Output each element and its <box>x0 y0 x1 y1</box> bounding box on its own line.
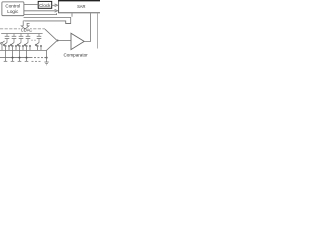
capacitor C1 <box>5 34 10 43</box>
capacitor C3 <box>19 34 24 43</box>
switch S3 <box>17 43 24 58</box>
wire control->SAR with arrow <box>24 9 58 12</box>
main ground symbol <box>44 50 48 65</box>
wire SAR underside stub <box>71 13 73 17</box>
svg-text:Comparator: Comparator <box>63 53 88 58</box>
svg-text:CDAC: CDAC <box>21 28 33 33</box>
switch S2 <box>10 43 17 58</box>
svg-text:SAR: SAR <box>77 4 85 9</box>
capacitor C4 <box>26 34 31 43</box>
diagonal rail -> comparator node (upper) <box>45 29 57 40</box>
comparator U2 triangle <box>71 33 84 49</box>
svg-text:Control: Control <box>5 3 20 8</box>
wire SAR right output down <box>97 13 99 48</box>
input switch S0 far left <box>1 41 5 51</box>
wire control->SAR bottom <box>24 13 57 14</box>
svg-text:Clock: Clock <box>39 3 51 8</box>
capacitor C2 <box>12 34 17 43</box>
wire control->clock <box>24 4 39 6</box>
capacitor C5 <box>37 34 42 43</box>
junction dots on ground rail <box>12 57 48 59</box>
wire shaft top -> step down (inner) <box>23 21 70 24</box>
SAR box <box>58 0 103 13</box>
CDAC dashed box top edge <box>0 28 45 30</box>
wire control->right elbow down (outer) <box>24 17 71 24</box>
clock box <box>38 1 52 8</box>
ground stubs below rail <box>4 58 41 62</box>
block arrow down into CDAC <box>21 21 29 29</box>
ellipsis dashes between C4 and C5 <box>31 39 36 41</box>
diagonal rail -> comparator node (lower) <box>46 41 56 51</box>
reference rail (upper bottom rail) <box>0 49 46 51</box>
control logic box U1 <box>2 2 24 16</box>
top plate rail <box>1 33 42 35</box>
wire comparator output -> SAR <box>84 13 90 41</box>
switch S5 <box>35 43 42 51</box>
wire node->comparator <box>58 40 71 42</box>
comparator input node <box>57 40 59 42</box>
svg-text:Logic: Logic <box>7 9 19 14</box>
ground rail (lower bottom rail) <box>0 57 47 59</box>
switch S4 <box>24 43 31 58</box>
switch S1 <box>3 43 10 58</box>
wire clock->SAR with arrow <box>52 4 58 7</box>
